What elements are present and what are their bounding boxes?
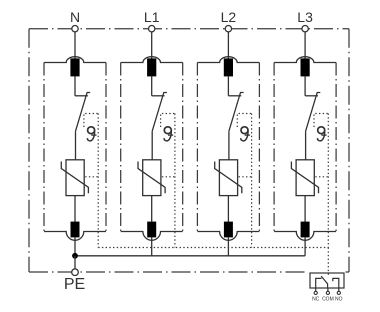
linkage varistor to dotted line (L1) [162,176,175,178]
mechanical linkage bus (dotted) [98,247,328,249]
PE terminal circle [72,269,79,276]
varistor (L2) [219,160,237,196]
outer enclosure border (dash-dot) [28,29,30,272]
linkage varistor to dotted line (L2) [239,176,252,178]
thermal linkage dotted box + theta (L1) [161,114,175,128]
terminal block (bottom, L3 path) [301,222,310,238]
box top edge with entry arc (L3) [274,57,336,63]
wire: terminal N down into box [74,32,76,59]
contact terminal circles [314,291,317,294]
wire: varistor to bottom block (N) [74,196,76,222]
thermal linkage dotted box + theta (N) [84,114,98,128]
svg-text:PE: PE [64,276,85,293]
wire: terminal L2 down into box [227,32,229,59]
svg-text:NC: NC [312,297,320,303]
box bottom edge with exit arc (L1) [121,232,183,241]
wire: junction to PE terminal [74,256,76,269]
svg-text:L3: L3 [297,9,313,25]
thermal disconnector switch (L1) [152,95,165,97]
protection path box L3 (dash-dot) [273,63,275,232]
terminal block (bottom, L1 path) [147,222,156,238]
terminal block (bottom, N path) [71,222,80,238]
box top edge with entry arc (L1) [121,57,183,63]
wire: bottom block to PE bus (N) [74,237,76,255]
terminal block (top, N path) [70,58,79,76]
svg-text:COM: COM [322,297,334,303]
varistor (L3) [296,160,314,196]
terminal circle L2 [225,26,231,32]
wire: block to disconnector (L1) [151,76,153,96]
wire: bottom block to PE bus (L3) [304,237,306,255]
terminal circle L3 [302,26,308,32]
terminal block (bottom, L2 path) [224,222,233,238]
changeover blade [321,276,327,288]
PE bus wire [75,255,305,257]
varistor (L1) [143,160,161,196]
protection path box L1 (dash-dot) [120,63,122,232]
box bottom edge with exit arc (L3) [274,232,336,241]
linkage varistor to dotted line (L3) [315,176,328,178]
linkage varistor to dotted line (N) [85,176,98,178]
terminal circle L1 [149,26,155,32]
svg-text:N: N [70,9,80,25]
svg-text:NO: NO [335,297,343,303]
wire: disconnector to varistor (L3) [305,131,307,160]
terminal circle N [72,26,78,32]
wire: disconnector to varistor (L2) [228,131,230,160]
linkage tick into box [327,273,329,275]
thermal disconnector switch (L3) [305,95,318,97]
wire: disconnector to varistor (N) [75,131,77,160]
box top edge with entry arc (N) [44,57,106,63]
box bottom edge with exit arc (L2) [197,232,259,241]
remote signalling contact box [310,273,344,288]
varistor (N) [66,160,84,196]
protection path box N (dash-dot) [43,63,45,232]
svg-text:L2: L2 [221,9,237,25]
wire: terminal L1 down into box [151,32,153,59]
wire: block to disconnector (L3) [304,76,306,96]
wire: varistor to bottom block (L2) [227,196,229,222]
NC fixed contact [316,278,322,288]
contact terminal stems [316,288,339,291]
NO fixed contact [333,278,339,288]
dotted linkage down to signalling contact [327,248,329,275]
svg-text:L1: L1 [144,9,160,25]
protection path box L2 (dash-dot) [196,63,198,232]
junction dot (PE node) [72,253,78,259]
wire: block to disconnector (L2) [227,76,229,96]
thermal linkage dotted box + theta (L3) [314,114,328,128]
wire: disconnector to varistor (L1) [151,131,153,160]
thermal linkage dotted box + theta (L2) [237,114,251,128]
terminal block (top, L3 path) [301,58,310,76]
terminal block (top, L1 path) [147,58,156,76]
wire: bottom block to PE bus (L1) [151,237,153,255]
terminal block (top, L2 path) [224,58,233,76]
wire: varistor to bottom block (L3) [304,196,306,222]
wire: terminal L3 down into box [304,32,306,59]
box bottom edge with exit arc (N) [44,232,106,241]
wire: varistor to bottom block (L1) [151,196,153,222]
wire: block to disconnector (N) [74,76,76,96]
box top edge with entry arc (L2) [197,57,259,63]
wire: bottom block to PE bus (L2) [227,237,229,255]
thermal disconnector switch (N) [75,95,88,97]
thermal disconnector switch (L2) [228,95,241,97]
